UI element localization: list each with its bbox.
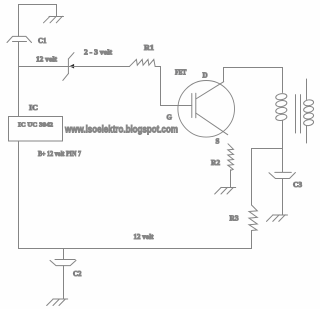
resistor R1 (zigzag) [130,59,156,66]
ground (top, right of C1 loop) [44,16,64,23]
wire: rail from C1 down to IC box [18,42,20,117]
wire: zener to R1 [69,66,130,68]
wire: R1 to FET gate [155,67,192,106]
wire: node to R3 branch [252,148,283,150]
svg-text:C2: C2 [73,269,82,278]
ground (below C3) [267,215,288,222]
ground (below C2) [47,299,68,306]
transistor Q1 drain diagonal [196,82,224,99]
transformer T1 secondary coil [303,99,314,126]
svg-text:12 volt: 12 volt [134,233,155,241]
transistor Q1 gate bars [192,93,196,118]
wire: R3 down to bottom bus [251,231,253,249]
wire: node down to R3 [251,149,253,206]
op-amp U1 IC box UC3842 [9,117,63,142]
resistor R2 (vertical zigzag from source) [228,144,234,171]
wire: left rail top segment to top loop [19,5,57,37]
svg-text:IC UC 3842: IC UC 3842 [18,121,53,128]
svg-text:R2: R2 [211,159,221,167]
svg-text:R1: R1 [144,44,155,52]
transformer T1 secondary top lead [306,79,308,100]
transistor Q1 source diagonal [196,113,228,135]
svg-text:IC: IC [29,103,38,112]
transformer T1 primary coil [275,93,287,121]
svg-text:S: S [216,137,220,145]
transformer T1 secondary bottom lead [306,126,308,144]
wire: rail to zener diode [19,66,69,68]
wire: C3 to ground [282,179,284,216]
svg-text:2 - 3 volt: 2 - 3 volt [84,49,113,57]
zener diode D1 (2-3 volt) [63,53,74,81]
ground (below R2) [215,187,236,194]
transistor Q1 FET body (circle) [178,81,235,138]
wire: C2 to ground [63,266,65,299]
capacitor C2 (straight top plate, curved bottom plate) [50,260,76,266]
capacitor C1 (curved top plate, straight bottom plate) [7,36,32,42]
wire: bus down to C2 [63,249,65,260]
wire: bottom 12 volt bus [19,248,252,250]
svg-text:B+ 12 volt PIN 7: B+ 12 volt PIN 7 [38,150,81,158]
svg-text:FET: FET [175,68,187,76]
wire: primary bottom down to C3 node [282,121,284,172]
svg-text:www.isoelektro.blogspot.com: www.isoelektro.blogspot.com [64,124,178,135]
wire: R2 to ground [230,170,232,188]
svg-text:D: D [203,71,208,79]
svg-text:C1: C1 [38,36,47,45]
transformer T1 core [296,95,301,133]
svg-text:R3: R3 [230,214,240,222]
svg-text:G: G [167,113,173,121]
resistor R3 (vertical zigzag) [249,205,257,231]
wire: drain up and over to transformer primary [224,68,283,93]
wire: rail from IC box down to bottom bus [18,141,20,249]
svg-text:C3: C3 [293,180,302,189]
capacitor C3 (straight top plate, curved bottom plate) [269,172,295,178]
svg-text:12 volt: 12 volt [36,56,58,64]
